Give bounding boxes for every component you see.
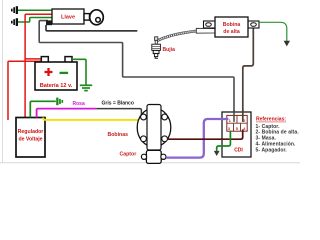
svg-text:Llave: Llave bbox=[61, 14, 75, 20]
wire red lower branch left bbox=[8, 61, 42, 120]
CDI pin numbers bbox=[228, 118, 247, 131]
CDI connector bbox=[227, 115, 247, 131]
wire rosa (magenta) regulator to flywheel bbox=[37, 109, 97, 118]
svg-text:Gris = Blanco: Gris = Blanco bbox=[102, 100, 134, 106]
wire gray Llave loop to CDI pin5 bbox=[39, 21, 234, 113]
wire green plug1 to Llave bbox=[18, 9, 52, 11]
svg-text:Bobinas: Bobinas bbox=[108, 132, 129, 138]
svg-text:Batería 12 v.: Batería 12 v. bbox=[40, 83, 73, 89]
svg-text:5- Apagador.: 5- Apagador. bbox=[256, 147, 288, 153]
flywheel stator circle bbox=[137, 105, 171, 151]
wire green regulator to plug bbox=[30, 101, 56, 117]
wire black Llave bottom run bbox=[46, 25, 137, 31]
legend Referencias bbox=[256, 117, 300, 154]
CDI box bbox=[222, 112, 251, 157]
spark plug cable (hatched) bbox=[158, 31, 197, 41]
svg-text:CDI: CDI bbox=[234, 148, 243, 154]
wire coil to CDI pin2 (dark) bbox=[243, 27, 254, 113]
svg-text:Referencias:: Referencias: bbox=[256, 117, 286, 123]
wire stub dark into CDI pin2 bbox=[242, 110, 244, 122]
ignition coil box Bobina de alta bbox=[204, 17, 260, 37]
svg-text:de alta: de alta bbox=[223, 29, 240, 35]
svg-text:Bobina: Bobina bbox=[223, 22, 241, 28]
wire green battery minus to ground bbox=[72, 59, 86, 84]
ground arrow below CDI bbox=[214, 151, 220, 156]
switch box Llave bbox=[52, 9, 84, 24]
voltage regulator box bbox=[16, 118, 45, 158]
wire gris=blanco continuation bbox=[96, 109, 141, 117]
ground arrow right of coil bbox=[284, 41, 290, 47]
wire green coil to ground arrow bbox=[259, 22, 287, 41]
wire dark red flywheel to CDI pin4 bbox=[167, 130, 243, 140]
wire purple captor to CDI pin1 bbox=[166, 119, 228, 158]
captor pickup under flywheel bbox=[141, 150, 166, 163]
wire red upper branch to battery + bbox=[25, 58, 41, 60]
wire green CDI pin3 to ground bbox=[217, 131, 231, 152]
svg-text:Captor: Captor bbox=[120, 152, 137, 158]
connector plug P1 (top-left) bbox=[11, 6, 18, 14]
wire stub gray into CDI pin5 bbox=[233, 110, 235, 122]
page edge line left (decorative) bbox=[2, 0, 4, 163]
llave corner tab bbox=[46, 20, 52, 25]
spark cable sleeve at coil bbox=[196, 28, 215, 33]
svg-text:Rosa: Rosa bbox=[73, 101, 85, 107]
svg-text:de Voltaje: de Voltaje bbox=[18, 137, 42, 143]
key icon bbox=[84, 10, 103, 25]
ground symbol green bbox=[80, 85, 92, 90]
spark plug Bujia icon bbox=[152, 37, 161, 59]
green plug icon near regulator bbox=[56, 98, 63, 106]
connector plug P2 (below P1) bbox=[11, 18, 18, 26]
battery Bateria 12v bbox=[35, 57, 77, 90]
wire green plug2 to Llave bbox=[18, 18, 52, 23]
svg-text:Bujia: Bujia bbox=[163, 47, 176, 53]
wire red Llave to battery junction bbox=[25, 14, 52, 117]
svg-text:Regulador: Regulador bbox=[18, 129, 44, 135]
wire yellow regulator to flywheel bbox=[43, 118, 139, 120]
